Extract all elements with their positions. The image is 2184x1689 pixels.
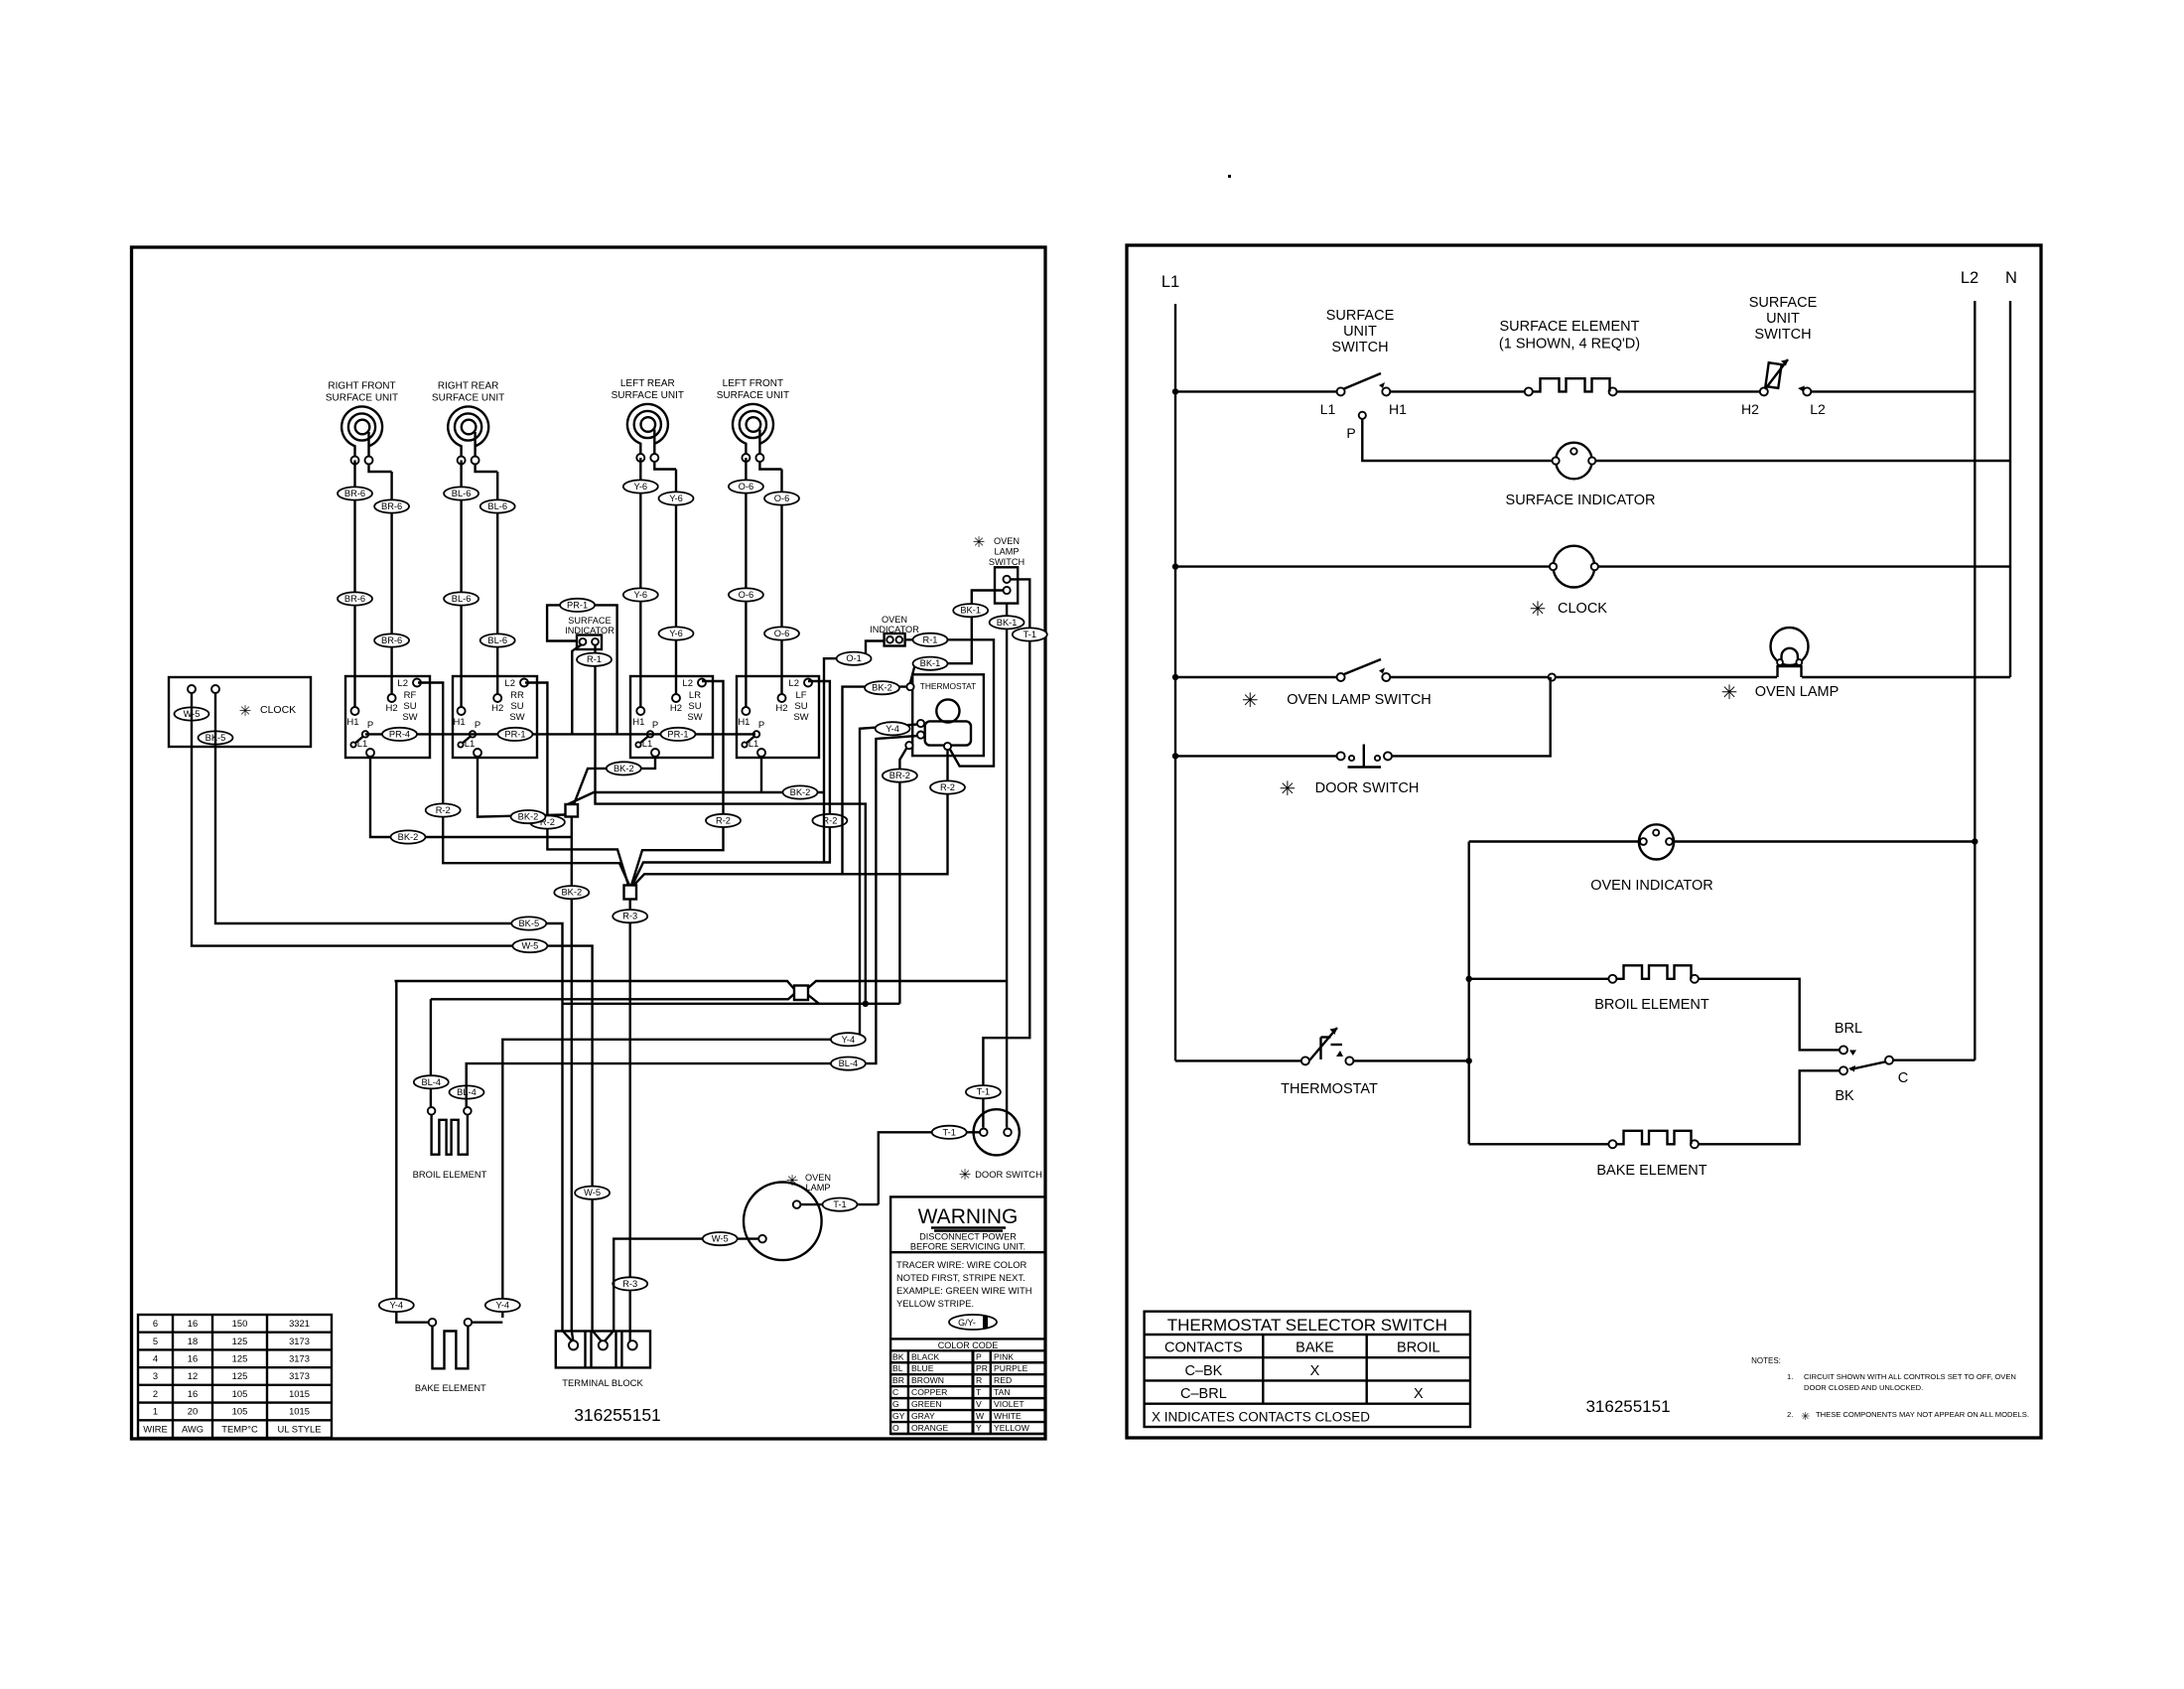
wire label Y-6 — [623, 588, 658, 601]
wire between switch and element — [1390, 390, 1529, 392]
svg-text:3173: 3173 — [289, 1370, 310, 1381]
wire label BK-2 — [391, 830, 426, 843]
svg-text:R-1: R-1 — [587, 654, 602, 664]
svg-text:Y-4: Y-4 — [842, 1035, 856, 1045]
wire bowtie lower-right branch — [808, 995, 819, 1004]
wire label BK-1 — [990, 616, 1024, 629]
oven lamp switch (right page) — [1337, 659, 1391, 681]
svg-text:OVEN INDICATOR: OVEN INDICATOR — [1590, 878, 1713, 894]
svg-text:Y-6: Y-6 — [633, 482, 647, 492]
switch box LF SU SW — [737, 676, 819, 758]
svg-text:CIRCUIT SHOWN WITH ALL CONTROL: CIRCUIT SHOWN WITH ALL CONTROLS SET TO O… — [1804, 1372, 2016, 1381]
svg-text:L2: L2 — [1961, 269, 1979, 287]
svg-text:BK-2: BK-2 — [790, 787, 811, 797]
svg-text:H2: H2 — [775, 703, 787, 714]
svg-text:TRACER WIRE: WIRE COLOR: TRACER WIRE: WIRE COLOR — [896, 1259, 1026, 1270]
wire label R-1 — [577, 653, 612, 666]
svg-text:BR-2: BR-2 — [889, 771, 910, 780]
wire BK-2 LR L1 to black junction — [574, 757, 655, 804]
wire label BL-6 — [444, 592, 478, 605]
bake element — [379, 981, 503, 1393]
svg-text:X: X — [1414, 1386, 1424, 1402]
surface indicator box — [565, 616, 614, 649]
wire BR-2 horizontal collector — [563, 1003, 900, 1005]
wire label R-1 — [913, 633, 948, 646]
svg-text:SWITCH: SWITCH — [1754, 327, 1811, 343]
oven lamp switch box — [973, 534, 1024, 604]
svg-text:4: 4 — [153, 1352, 158, 1363]
surface unit coil RR — [432, 381, 504, 473]
wire label BK-2 — [554, 886, 589, 899]
svg-text:18: 18 — [188, 1336, 198, 1346]
svg-text:NOTED FIRST, STRIPE NEXT.: NOTED FIRST, STRIPE NEXT. — [896, 1272, 1025, 1283]
svg-text:THERMOSTAT: THERMOSTAT — [1281, 1081, 1378, 1097]
svg-text:125: 125 — [232, 1352, 248, 1363]
svg-text:H2: H2 — [386, 703, 398, 714]
svg-text:BEFORE SERVICING UNIT.: BEFORE SERVICING UNIT. — [910, 1242, 1025, 1252]
svg-text:LEFT FRONT: LEFT FRONT — [723, 378, 783, 389]
svg-text:BK-2: BK-2 — [398, 832, 419, 842]
wire element to right switch — [1617, 390, 1764, 392]
bake element (right page) — [1469, 1131, 1707, 1179]
wire label O-6 — [764, 492, 799, 504]
wire Y-4 bake left drop — [396, 981, 428, 1323]
G/Y- example oval — [949, 1315, 997, 1330]
svg-text:W: W — [976, 1411, 985, 1421]
wire label BK-1 — [913, 657, 948, 670]
svg-text:O: O — [892, 1423, 899, 1433]
wire Y-4 thermostat to bake element right — [502, 725, 917, 1319]
svg-text:GRAY: GRAY — [911, 1411, 935, 1421]
wire clock to N — [1598, 565, 2010, 567]
svg-text:✳: ✳ — [786, 1173, 799, 1190]
svg-text:BLUE: BLUE — [911, 1363, 934, 1373]
svg-text:R-2: R-2 — [940, 782, 955, 792]
svg-text:DISCONNECT POWER: DISCONNECT POWER — [919, 1232, 1017, 1242]
svg-text:PR-1: PR-1 — [567, 600, 588, 610]
svg-text:T: T — [976, 1387, 982, 1397]
wire PR-1 loop to surface indicator — [547, 605, 617, 734]
svg-text:P: P — [652, 720, 658, 731]
svg-text:BR-6: BR-6 — [381, 635, 402, 645]
svg-text:YELLOW: YELLOW — [994, 1423, 1030, 1433]
thermostat rung — [1175, 1059, 1301, 1061]
svg-text:BK: BK — [1835, 1088, 1854, 1104]
wire label BK-2 — [783, 785, 818, 798]
wire R-2 LR L2 to red junction — [631, 681, 724, 886]
svg-text:SURFACE: SURFACE — [1326, 308, 1395, 324]
svg-text:3173: 3173 — [289, 1336, 310, 1346]
svg-text:12: 12 — [188, 1370, 198, 1381]
N rail — [2009, 301, 2011, 677]
wire label BK-2 — [865, 681, 899, 694]
svg-text:N: N — [2005, 269, 2017, 287]
wire W-5 oven lamp to terminal block — [605, 1239, 758, 1341]
wire label W-5 — [512, 939, 547, 952]
wire BK-2 RF L1 to black junction — [370, 757, 572, 837]
wire label PR-4 — [382, 728, 417, 741]
wire label W-5 — [575, 1187, 610, 1199]
wire label BR-6 — [374, 499, 409, 512]
broil element (right page) — [1469, 965, 1709, 1013]
svg-text:316255151: 316255151 — [1585, 1397, 1670, 1416]
svg-text:SURFACE UNIT: SURFACE UNIT — [326, 393, 398, 404]
svg-text:SURFACE: SURFACE — [568, 616, 611, 626]
svg-text:TEMP°C: TEMP°C — [221, 1423, 258, 1434]
thermostat box (left page) — [905, 674, 984, 756]
svg-text:SU: SU — [510, 701, 523, 712]
svg-text:P: P — [976, 1351, 982, 1361]
svg-text:3173: 3173 — [289, 1352, 310, 1363]
wire BR-6 left (RF H1 drop) — [353, 461, 355, 708]
svg-text:LF: LF — [795, 690, 806, 701]
svg-text:O-6: O-6 — [774, 629, 790, 638]
svg-text:SW: SW — [687, 712, 702, 723]
svg-text:RF: RF — [404, 690, 417, 701]
wire PR (pink P-line across switch boxes) — [365, 733, 755, 735]
wire O-6 left (LF H1 drop) — [745, 458, 747, 707]
right page border frame — [1127, 245, 2041, 1438]
wire label PR-1 — [498, 728, 533, 741]
wire label BL-6 — [480, 633, 515, 646]
svg-text:SW: SW — [793, 712, 808, 723]
svg-text:SURFACE UNIT: SURFACE UNIT — [612, 390, 684, 401]
wire BL-6 left (RR H1 drop) — [460, 461, 462, 708]
wire label O-6 — [729, 480, 763, 493]
oven indicator lamp (right page) — [1639, 824, 1674, 859]
svg-text:H2: H2 — [1741, 401, 1759, 417]
wire BR-2 thermostat down — [899, 748, 906, 1004]
svg-text:BK-5: BK-5 — [518, 918, 539, 928]
wire label R-3 — [613, 1277, 647, 1290]
svg-text:SU: SU — [688, 701, 701, 712]
svg-text:LR: LR — [689, 690, 701, 701]
svg-text:L1: L1 — [1320, 401, 1336, 417]
wire label T-1 — [1013, 628, 1047, 640]
svg-text:BL-6: BL-6 — [487, 501, 507, 511]
svg-text:BK-2: BK-2 — [518, 812, 539, 822]
svg-text:WHITE: WHITE — [994, 1411, 1022, 1421]
wire label T-1 — [966, 1085, 1001, 1098]
svg-text:H1: H1 — [1389, 401, 1407, 417]
svg-text:R: R — [976, 1375, 982, 1385]
svg-text:UNIT: UNIT — [1766, 311, 1800, 327]
svg-text:(1 SHOWN, 4 REQ'D): (1 SHOWN, 4 REQ'D) — [1499, 337, 1640, 352]
node P — [1359, 412, 1366, 419]
wire BK-2 thermostat left — [843, 687, 907, 875]
svg-text:BL-4: BL-4 — [421, 1077, 441, 1087]
svg-text:R-2: R-2 — [716, 815, 731, 825]
wire Y-6 right (LR H2 drop) — [675, 470, 677, 695]
terminal block — [556, 1332, 650, 1389]
svg-text:O-6: O-6 — [739, 590, 754, 600]
svg-text:R-1: R-1 — [923, 634, 938, 644]
svg-text:BROIL: BROIL — [1397, 1340, 1440, 1356]
svg-text:RIGHT FRONT: RIGHT FRONT — [328, 381, 395, 392]
svg-text:Y-6: Y-6 — [669, 629, 683, 638]
surface unit coil RF — [326, 381, 398, 473]
svg-text:P: P — [758, 720, 764, 731]
svg-text:BROIL ELEMENT: BROIL ELEMENT — [413, 1169, 487, 1180]
clock (left page) — [169, 677, 311, 747]
svg-text:WARNING: WARNING — [918, 1205, 1019, 1228]
wire label R-2 — [930, 780, 965, 793]
wire BK-1 lamp switch to thermostat — [910, 591, 1004, 683]
bowtie junction square — [794, 986, 808, 1001]
svg-text:L1: L1 — [749, 739, 759, 750]
svg-text:THESE COMPONENTS MAY NOT APPEA: THESE COMPONENTS MAY NOT APPEAR ON ALL M… — [1816, 1410, 2029, 1419]
svg-text:BK-1: BK-1 — [960, 606, 981, 616]
surface unit switch (right) — [1741, 295, 1826, 417]
svg-text:16: 16 — [188, 1318, 198, 1329]
thermostat switch (right page) — [1281, 1028, 1378, 1097]
wire label PR-1 — [560, 599, 595, 612]
svg-text:RED: RED — [994, 1375, 1012, 1385]
wire label BL-4 — [831, 1057, 866, 1070]
wire label BL-4 — [414, 1075, 449, 1088]
svg-text:BK: BK — [892, 1351, 904, 1361]
svg-text:SURFACE: SURFACE — [1749, 295, 1818, 311]
svg-text:BL-4: BL-4 — [839, 1058, 859, 1068]
wire label BK-5 — [511, 916, 546, 929]
svg-text:TAN: TAN — [994, 1387, 1011, 1397]
svg-text:BAKE ELEMENT: BAKE ELEMENT — [415, 1382, 486, 1393]
svg-text:EXAMPLE: GREEN WIRE WITH: EXAMPLE: GREEN WIRE WITH — [896, 1285, 1031, 1296]
svg-text:1015: 1015 — [289, 1388, 310, 1399]
junction square A (black) — [566, 804, 579, 817]
wire W-5 clock to terminal block — [192, 693, 602, 1341]
svg-text:P: P — [1346, 425, 1355, 441]
svg-text:BK-1: BK-1 — [920, 658, 941, 668]
wire T-1 into door switch — [879, 1132, 980, 1204]
svg-text:BK-2: BK-2 — [872, 683, 892, 693]
svg-text:BK-2: BK-2 — [561, 888, 582, 898]
svg-text:1.: 1. — [1787, 1372, 1793, 1381]
svg-text:SWITCH: SWITCH — [989, 557, 1024, 567]
surface indicator lamp (right page) — [1553, 443, 1596, 480]
svg-text:Y-4: Y-4 — [495, 1301, 509, 1311]
svg-text:SW: SW — [402, 712, 417, 723]
wire label BK-2 — [607, 762, 641, 774]
svg-text:5: 5 — [153, 1336, 158, 1346]
svg-text:BK-2: BK-2 — [614, 764, 634, 774]
svg-text:16: 16 — [188, 1352, 198, 1363]
svg-text:PR: PR — [976, 1363, 988, 1373]
svg-text:L2: L2 — [397, 678, 408, 689]
broil element — [413, 999, 487, 1180]
svg-text:H1: H1 — [738, 717, 750, 728]
svg-text:BR-6: BR-6 — [344, 489, 365, 498]
svg-text:OVEN LAMP SWITCH: OVEN LAMP SWITCH — [1287, 692, 1432, 708]
svg-text:20: 20 — [188, 1406, 198, 1417]
svg-text:C–BRL: C–BRL — [1180, 1386, 1227, 1402]
wire label BL-6 — [480, 499, 515, 512]
svg-text:125: 125 — [232, 1370, 248, 1381]
svg-text:W-5: W-5 — [712, 1234, 729, 1244]
svg-text:DOOR CLOSED AND UNLOCKED.: DOOR CLOSED AND UNLOCKED. — [1804, 1383, 1923, 1392]
svg-text:BRL: BRL — [1835, 1021, 1862, 1037]
wire BL-4 broil-left run to bowtie — [431, 994, 794, 999]
svg-text:SU: SU — [403, 701, 416, 712]
wire lamp to N — [1802, 676, 2010, 678]
wire clock rung — [1175, 565, 1554, 567]
svg-text:UL STYLE: UL STYLE — [278, 1423, 322, 1434]
svg-text:YELLOW STRIPE.: YELLOW STRIPE. — [896, 1298, 974, 1309]
notes text — [1751, 1356, 2029, 1423]
svg-text:Y-6: Y-6 — [669, 493, 683, 503]
svg-text:COPPER: COPPER — [911, 1387, 947, 1397]
wire label R-2 — [426, 803, 461, 816]
svg-text:TERMINAL BLOCK: TERMINAL BLOCK — [562, 1377, 643, 1388]
wire BL-6 right (RR H2 drop) — [496, 472, 498, 694]
svg-text:NOTES:: NOTES: — [1751, 1356, 1781, 1365]
wire BK-2 RR L1 to black junction — [478, 757, 566, 817]
svg-text:6: 6 — [153, 1318, 158, 1329]
surface unit switch (left) — [1320, 308, 1407, 417]
L2 rail — [1974, 301, 1976, 1060]
svg-text:105: 105 — [232, 1406, 248, 1417]
svg-text:BL-6: BL-6 — [487, 635, 507, 645]
svg-text:SW: SW — [509, 712, 524, 723]
wire label O-1 — [837, 652, 872, 665]
wire label W-5 — [703, 1232, 738, 1245]
wire oven indicator branch — [1469, 840, 1642, 842]
svg-text:BAKE ELEMENT: BAKE ELEMENT — [1596, 1163, 1706, 1179]
svg-text:PR-4: PR-4 — [389, 729, 410, 739]
svg-text:W-5: W-5 — [584, 1188, 601, 1197]
svg-text:316255151: 316255151 — [574, 1405, 661, 1425]
svg-text:T-1: T-1 — [833, 1199, 846, 1209]
svg-text:L2: L2 — [682, 678, 693, 689]
svg-text:C: C — [1898, 1070, 1908, 1086]
svg-text:OVEN: OVEN — [805, 1173, 831, 1183]
wire label BR-6 — [338, 592, 372, 605]
surface element (resistor) — [1499, 319, 1640, 395]
svg-text:✳: ✳ — [959, 1167, 972, 1184]
svg-text:✳: ✳ — [1242, 690, 1259, 712]
wire O-6 right (LF H2 drop) — [780, 470, 782, 695]
svg-text:SURFACE UNIT: SURFACE UNIT — [432, 393, 504, 404]
contact BRL — [1835, 1021, 1862, 1056]
svg-text:V: V — [976, 1399, 982, 1409]
wire label BL-6 — [444, 487, 478, 499]
svg-text:T-1: T-1 — [1024, 630, 1036, 639]
wire label R-2 — [530, 815, 565, 828]
svg-text:✳: ✳ — [1530, 599, 1547, 621]
svg-text:DOOR SWITCH: DOOR SWITCH — [1315, 780, 1420, 796]
svg-text:UNIT: UNIT — [1343, 324, 1377, 340]
vertical collector left of broil-bake — [1467, 842, 1469, 1145]
svg-text:1: 1 — [153, 1406, 158, 1417]
surface unit coil LF — [717, 378, 789, 470]
svg-text:3: 3 — [153, 1370, 158, 1381]
svg-text:LEFT REAR: LEFT REAR — [620, 378, 675, 389]
svg-text:L1: L1 — [1161, 273, 1179, 291]
wire Y-4 bake-left run to bowtie — [395, 981, 795, 989]
svg-text:GREEN: GREEN — [911, 1399, 942, 1409]
wire BK contact to bake element — [1699, 1070, 1840, 1144]
svg-text:THERMOSTAT: THERMOSTAT — [920, 681, 976, 691]
svg-text:BK-1: BK-1 — [997, 618, 1018, 628]
svg-text:OVEN LAMP: OVEN LAMP — [1755, 684, 1840, 700]
svg-text:BL-6: BL-6 — [452, 489, 472, 498]
svg-text:R-3: R-3 — [622, 1279, 637, 1289]
speck — [1228, 175, 1231, 178]
svg-text:L2: L2 — [788, 678, 799, 689]
svg-text:L2: L2 — [1810, 401, 1826, 417]
wire label Y-6 — [659, 627, 694, 639]
wire BK-2 LF L1 to black junction — [568, 757, 824, 804]
wire label Y-4 — [876, 722, 910, 735]
wire R-2 RF L2 to red junction — [418, 683, 629, 886]
wire label W-5 — [175, 707, 209, 720]
svg-text:W-5: W-5 — [521, 941, 538, 951]
wire BL-4 thermostat to broil element right — [467, 736, 917, 1106]
svg-text:C: C — [892, 1387, 898, 1397]
svg-text:X INDICATES CONTACTS CLOSED: X INDICATES CONTACTS CLOSED — [1152, 1410, 1370, 1425]
svg-text:GY: GY — [892, 1411, 905, 1421]
wire door switch rung — [1175, 755, 1341, 757]
svg-text:O-1: O-1 — [846, 653, 862, 663]
wire label BL-4 — [450, 1085, 484, 1098]
wire label Y-6 — [623, 480, 658, 493]
wire label Y-4 — [485, 1299, 520, 1312]
switch box RR SU SW — [453, 676, 537, 758]
wire R-1 oven indicator to thermostat — [905, 639, 994, 766]
selector common C — [1848, 1056, 1908, 1086]
wire label T-1 — [932, 1126, 967, 1139]
wire label R-2 — [706, 814, 741, 827]
svg-text:H2: H2 — [491, 703, 503, 714]
svg-text:Y-6: Y-6 — [633, 590, 647, 600]
wire thermostat to junction — [1353, 1059, 1468, 1061]
svg-text:H2: H2 — [670, 703, 682, 714]
svg-text:L1: L1 — [357, 739, 368, 750]
wire label T-1 — [823, 1198, 858, 1211]
svg-text:✳: ✳ — [1280, 778, 1297, 800]
wire label O-6 — [764, 627, 799, 639]
wire label BR-2 — [883, 770, 917, 782]
svg-text:RIGHT REAR: RIGHT REAR — [438, 381, 499, 392]
wire gauge table — [138, 1315, 332, 1438]
svg-text:WIRE: WIRE — [143, 1423, 167, 1434]
svg-text:ORANGE: ORANGE — [911, 1423, 949, 1433]
svg-text:G: G — [892, 1399, 899, 1409]
clock lamp circle (right page) — [1550, 546, 1598, 588]
wire label BK-5 — [199, 731, 233, 744]
oven indicator (left page) — [870, 615, 919, 646]
switch box RF SU SW — [345, 676, 430, 758]
wire label R-2 — [812, 814, 847, 827]
wire label Y-4 — [831, 1033, 866, 1046]
wire label BK-2 — [511, 810, 546, 823]
wire P to surface indicator — [1362, 419, 1556, 461]
svg-text:SWITCH: SWITCH — [1331, 340, 1388, 355]
wire BK-2 black junction down to terminal block — [572, 817, 574, 1341]
svg-text:LAMP: LAMP — [805, 1183, 830, 1193]
svg-text:Y-4: Y-4 — [389, 1301, 403, 1311]
wire P-line branch up to surface indicator — [572, 644, 582, 734]
svg-text:P: P — [475, 720, 480, 731]
svg-text:BL-6: BL-6 — [452, 594, 472, 604]
svg-text:CLOCK: CLOCK — [260, 704, 296, 716]
svg-text:✳: ✳ — [1801, 1411, 1810, 1423]
door switch (right page) — [1337, 745, 1392, 768]
svg-text:CONTACTS: CONTACTS — [1164, 1340, 1243, 1356]
wire Y-6 left (LR H1 drop) — [639, 458, 641, 707]
wire label O-6 — [729, 588, 763, 601]
svg-text:BAKE: BAKE — [1296, 1340, 1334, 1356]
